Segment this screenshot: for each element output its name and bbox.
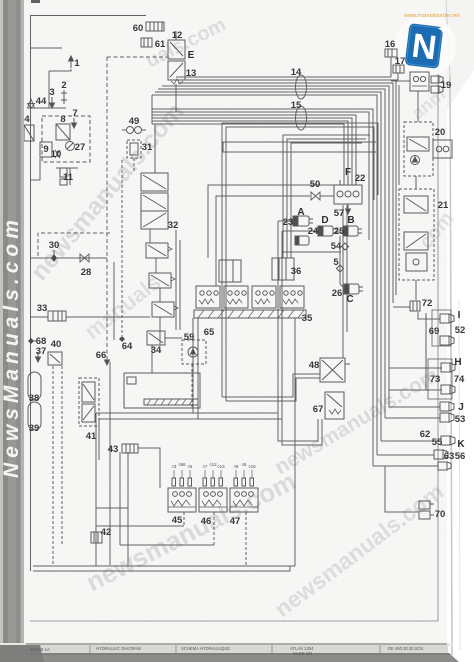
wire 5-26 drop bbox=[339, 236, 341, 284]
manifold top valve 1 bbox=[219, 260, 241, 282]
wire 70 feed bbox=[385, 466, 418, 512]
manifold valve B1 bbox=[196, 286, 220, 308]
bowtie 50 bbox=[311, 192, 320, 200]
block 41 bbox=[79, 378, 99, 426]
svg-text:8: 8 bbox=[60, 114, 65, 125]
bowtie 28 bbox=[80, 254, 89, 262]
svg-text:16: 16 bbox=[385, 39, 396, 50]
wire D-port bbox=[282, 230, 318, 232]
plug H2 bbox=[441, 385, 455, 394]
svg-text:60: 60 bbox=[133, 23, 144, 34]
arrow 3 bbox=[50, 97, 55, 108]
connector 60 hatched bbox=[146, 22, 164, 31]
manifold valve B2 bbox=[224, 286, 248, 308]
plug 58 bbox=[438, 462, 451, 470]
block 46 bbox=[199, 488, 227, 512]
page frame bottom bbox=[30, 620, 438, 622]
svg-text:38: 38 bbox=[29, 393, 40, 404]
wire 34 link bbox=[165, 337, 182, 339]
svg-text:J: J bbox=[458, 402, 464, 413]
svg-text:57: 57 bbox=[334, 208, 345, 219]
wire cascade link b bbox=[159, 288, 161, 302]
diamond 64 bbox=[119, 336, 125, 342]
unit 20 side block bbox=[433, 140, 452, 158]
svg-text:HYDRAULIC DIAGRAM: HYDRAULIC DIAGRAM bbox=[96, 646, 141, 651]
wire bundle left link bbox=[151, 95, 153, 124]
svg-text:37: 37 bbox=[36, 346, 47, 357]
svg-text:1: 1 bbox=[74, 58, 80, 69]
wire bundle l5 bbox=[152, 121, 348, 185]
wire 43 to blocks bbox=[138, 448, 160, 488]
wire 30 line bbox=[30, 257, 107, 259]
svg-text:4: 4 bbox=[24, 114, 30, 125]
wire K feed bbox=[381, 440, 441, 442]
valve 10 mark bbox=[55, 150, 60, 158]
svg-text:72: 72 bbox=[422, 298, 433, 309]
svg-text:25: 25 bbox=[334, 226, 345, 237]
svg-text:9: 9 bbox=[43, 144, 48, 155]
manifold bar hatched bbox=[194, 310, 306, 318]
svg-text:48: 48 bbox=[309, 360, 320, 371]
svg-text:SCHEMA HYDRAULIQUE: SCHEMA HYDRAULIQUE bbox=[181, 646, 230, 651]
plug H1 bbox=[441, 363, 455, 372]
port B barrel bbox=[343, 226, 362, 236]
loop coil 14 bbox=[296, 75, 307, 99]
arrow 37 bbox=[36, 352, 41, 362]
wire enclosure dashed left bbox=[106, 57, 108, 356]
gauge 27 bbox=[66, 142, 75, 151]
bottom strip bbox=[0, 643, 459, 662]
pump 59 dashed box bbox=[182, 340, 206, 364]
logo N blue square bbox=[405, 20, 451, 70]
wire manifold feed a bbox=[283, 135, 370, 258]
box H bbox=[428, 359, 452, 399]
wire top stub bbox=[30, 47, 62, 49]
svg-text:◊13: ◊13 bbox=[217, 464, 225, 469]
arrow 57 bbox=[346, 204, 351, 214]
wire 64 dashed bbox=[121, 160, 123, 336]
plug 53 bbox=[440, 413, 454, 422]
wire bus extra b bbox=[398, 85, 400, 185]
valve 40 bbox=[48, 352, 62, 365]
svg-text:31: 31 bbox=[142, 142, 153, 153]
wire bundle u4 bbox=[162, 86, 389, 407]
mini connectors above 46 bbox=[203, 470, 223, 486]
gauge block 22 bbox=[334, 178, 362, 204]
plug J bbox=[440, 402, 454, 411]
svg-text:E: E bbox=[188, 50, 195, 61]
wire manifold drop left a bbox=[192, 318, 194, 413]
block 45 bbox=[168, 488, 196, 512]
wire 48 risers bbox=[342, 205, 344, 358]
wire 46 drop bbox=[213, 512, 215, 545]
svg-text:49: 49 bbox=[129, 116, 140, 127]
wire manifold drop left b bbox=[197, 318, 199, 419]
svg-text:◊3: ◊3 bbox=[172, 464, 177, 469]
valve 48 bbox=[320, 358, 350, 382]
right page curl white edge bbox=[446, 0, 474, 662]
wire bowtie50 to valve22 bbox=[320, 195, 334, 197]
valve 18 bbox=[410, 72, 429, 91]
wire I feed bbox=[418, 312, 440, 319]
svg-text:56: 56 bbox=[455, 451, 466, 462]
svg-text:◊9: ◊9 bbox=[234, 464, 239, 469]
wire 43 riser bbox=[119, 452, 121, 545]
wire frame bottom pair b bbox=[226, 378, 320, 401]
wire bundle l6 bbox=[152, 124, 344, 185]
wire bus extra a bbox=[395, 80, 397, 295]
svg-text:46: 46 bbox=[201, 516, 212, 527]
wire top horizontal bbox=[30, 15, 146, 17]
wire cluster loop bbox=[49, 69, 71, 71]
svg-text:30: 30 bbox=[49, 240, 60, 251]
plug 52 bbox=[440, 336, 454, 345]
box I unit bbox=[432, 310, 451, 346]
connector 33 hatched bbox=[48, 311, 66, 321]
wire 34 drop bbox=[151, 345, 153, 373]
svg-text:5: 5 bbox=[333, 257, 339, 268]
svg-text:◊15: ◊15 bbox=[248, 464, 256, 469]
svg-text:47: 47 bbox=[230, 516, 241, 527]
svg-text:B: B bbox=[347, 215, 354, 226]
valve E 13 lower bbox=[168, 61, 185, 84]
wire 32 drop bbox=[149, 229, 151, 243]
svg-text:42: 42 bbox=[101, 527, 112, 538]
wire bottom mid bbox=[120, 544, 214, 546]
svg-text:59: 59 bbox=[184, 332, 195, 343]
svg-text:K: K bbox=[457, 439, 465, 450]
svg-text:66: 66 bbox=[96, 350, 107, 361]
valve 34 bbox=[147, 331, 165, 345]
wire 21 drop bbox=[415, 280, 417, 300]
port D barrel bbox=[318, 226, 337, 236]
corner mark bbox=[31, 0, 40, 3]
valve cascade c bbox=[152, 302, 178, 317]
svg-text:44: 44 bbox=[36, 96, 47, 107]
svg-text:17: 17 bbox=[395, 56, 406, 67]
svg-text:◊12: ◊12 bbox=[209, 462, 217, 467]
svg-text:62: 62 bbox=[420, 429, 431, 440]
svg-text:21: 21 bbox=[438, 200, 449, 211]
wire frame bottom pair a bbox=[222, 374, 320, 397]
wire 43 riser b bbox=[127, 452, 129, 566]
wire cluster loop drop bbox=[48, 71, 50, 108]
svg-text:69: 69 bbox=[429, 326, 440, 337]
wire cascade link a bbox=[155, 258, 157, 273]
valve 31 box bbox=[127, 140, 141, 158]
svg-text:N: N bbox=[410, 27, 439, 68]
valve 11 marks bbox=[60, 168, 70, 185]
svg-text:7: 7 bbox=[72, 108, 77, 119]
wire manifold long drop bbox=[294, 318, 296, 566]
svg-text:33: 33 bbox=[37, 303, 48, 314]
wire frame hairpin bbox=[223, 142, 376, 152]
loop coil 15 bbox=[296, 106, 307, 130]
plug I bbox=[440, 314, 454, 323]
svg-text:20: 20 bbox=[435, 127, 446, 138]
wire bundle u6 bbox=[155, 92, 381, 441]
svg-text:40: 40 bbox=[51, 339, 62, 350]
connector 61 hatched bbox=[141, 38, 152, 47]
wire 40 drops bbox=[52, 366, 54, 566]
port A2 barrel bbox=[295, 236, 309, 245]
wire bundle u5 bbox=[158, 89, 385, 418]
wire 72 feed bbox=[393, 306, 410, 308]
wire cascade bottom bbox=[159, 317, 161, 345]
wire B-port link bbox=[336, 231, 343, 233]
svg-text:73: 73 bbox=[430, 374, 441, 385]
svg-text:35: 35 bbox=[302, 313, 313, 324]
svg-text:65: 65 bbox=[204, 327, 215, 338]
svg-text:◊6: ◊6 bbox=[188, 464, 193, 469]
manifold top valve 2 bbox=[272, 258, 294, 280]
svg-text:43: 43 bbox=[108, 444, 119, 455]
wire A-port bbox=[278, 220, 293, 222]
manifold valve B3 bbox=[252, 286, 276, 308]
wire inner rect b bbox=[99, 419, 322, 445]
wire 20 to 21 link bbox=[415, 176, 417, 189]
wire bundle l3 bbox=[152, 115, 356, 185]
svg-text:H: H bbox=[454, 357, 461, 368]
wire 11 bar bbox=[56, 167, 78, 169]
wire A vertical bbox=[277, 221, 279, 413]
plug 70 bbox=[419, 501, 434, 519]
regulator cluster dashed box bbox=[42, 116, 90, 162]
valve 2 mark bbox=[61, 90, 67, 104]
svg-text:F: F bbox=[345, 167, 351, 178]
block 47 bbox=[230, 488, 258, 512]
wire bundle u1 bbox=[176, 76, 391, 78]
wire frame N1 bbox=[222, 123, 378, 397]
wire J feed bbox=[389, 406, 440, 408]
svg-text:32: 32 bbox=[168, 220, 179, 231]
wire 59 drop bbox=[191, 364, 193, 408]
valve cascade b bbox=[149, 273, 175, 288]
svg-text:36: 36 bbox=[291, 266, 302, 277]
arrow 66 bbox=[105, 356, 110, 365]
wire bundle l1 bbox=[152, 109, 373, 466]
wire bundle l2 bbox=[152, 112, 369, 240]
port C barrel bbox=[344, 284, 363, 294]
wire 54 branch bbox=[282, 251, 341, 253]
svg-text:22: 22 bbox=[355, 173, 366, 184]
valve 4 box bbox=[24, 125, 34, 141]
wire 16 drop bbox=[390, 57, 392, 77]
svg-text:26: 26 bbox=[332, 288, 343, 299]
pump 49 bbox=[122, 127, 146, 134]
svg-text:53: 53 bbox=[455, 414, 466, 425]
svg-text:DE 460.30.30.0CN: DE 460.30.30.0CN bbox=[388, 646, 423, 651]
valve 9 box bbox=[40, 142, 52, 157]
valve 8 box bbox=[56, 124, 70, 140]
connector 42 bbox=[91, 532, 102, 543]
svg-text:I: I bbox=[458, 310, 461, 321]
accumulator 39 bbox=[28, 402, 41, 430]
svg-text:◊56: ◊56 bbox=[178, 462, 186, 467]
svg-text:63: 63 bbox=[444, 451, 455, 462]
svg-text:41: 41 bbox=[86, 431, 97, 442]
mini connectors above 45 bbox=[172, 470, 192, 486]
wire 41 pair left drop bbox=[98, 419, 100, 460]
wire bundle u7 bbox=[152, 95, 377, 455]
svg-text:13: 13 bbox=[186, 68, 197, 79]
svg-text:D: D bbox=[321, 215, 328, 226]
wire 9 box link bbox=[30, 158, 40, 180]
left margin strip bbox=[0, 0, 24, 655]
wire 48 riser b bbox=[346, 205, 348, 332]
accumulator 38 bbox=[28, 372, 41, 400]
wire cascade side pair b bbox=[179, 240, 181, 330]
wire 31 drop bbox=[133, 158, 135, 173]
wire 37 line bbox=[30, 340, 36, 342]
svg-text:34: 34 bbox=[151, 345, 162, 356]
svg-text:52: 52 bbox=[455, 325, 466, 336]
wire 53 feed bbox=[385, 417, 440, 419]
svg-text:www.manualsorder.net: www.manualsorder.net bbox=[403, 13, 460, 19]
wire valve E drop bbox=[175, 84, 177, 112]
bowtie 44 bbox=[28, 99, 35, 108]
page frame right bbox=[437, 68, 439, 621]
wire mid h185 bbox=[208, 185, 334, 258]
svg-text:45: 45 bbox=[172, 515, 183, 526]
svg-text:74: 74 bbox=[454, 374, 465, 385]
svg-text:61: 61 bbox=[155, 39, 166, 50]
wire bundle l4 bbox=[152, 118, 352, 185]
plug K bbox=[441, 436, 455, 445]
wire bottom long a bbox=[33, 565, 295, 567]
wire C feed bbox=[340, 284, 344, 288]
wire 45 drop bbox=[183, 512, 185, 526]
wire dashed enclosure L bbox=[38, 233, 110, 256]
svg-text:3: 3 bbox=[49, 87, 54, 98]
wire inner rect a bbox=[96, 413, 318, 441]
arrow 7 bbox=[72, 118, 77, 128]
svg-text:27: 27 bbox=[75, 142, 86, 153]
valve cascade a bbox=[146, 243, 172, 258]
port A barrel bbox=[293, 216, 313, 226]
wire 19 feed bbox=[391, 80, 410, 82]
diamond 30 bbox=[51, 250, 57, 262]
wire 17 drop bbox=[397, 73, 399, 80]
wire bottom long b bbox=[33, 566, 290, 571]
svg-text:24: 24 bbox=[308, 226, 319, 237]
wire manifold feed b bbox=[287, 139, 366, 258]
wire 63 feed bbox=[377, 454, 434, 456]
valve 5 diamond bbox=[337, 265, 344, 272]
svg-text:39: 39 bbox=[29, 423, 40, 434]
wire bundle u2 bbox=[176, 79, 398, 81]
plug 19b bbox=[431, 86, 443, 93]
valve 32 stack bbox=[141, 173, 168, 229]
wire 41 loop bbox=[96, 507, 128, 509]
wire bundle u3 bbox=[178, 83, 393, 303]
valve 67 bbox=[325, 392, 344, 419]
plug 19a bbox=[431, 76, 443, 83]
unit 21 dashed box bbox=[399, 189, 434, 280]
svg-text:54: 54 bbox=[331, 241, 342, 252]
svg-text:28: 28 bbox=[81, 267, 92, 278]
svg-text:23: 23 bbox=[283, 217, 294, 228]
svg-text:67: 67 bbox=[313, 404, 324, 415]
svg-text:SAGE 1/N: SAGE 1/N bbox=[293, 651, 312, 656]
wire enclosure dashed top bbox=[107, 56, 167, 58]
svg-text:15: 15 bbox=[291, 100, 302, 111]
plug 63 bbox=[434, 450, 448, 459]
svg-text:12: 12 bbox=[172, 30, 183, 41]
svg-text:70: 70 bbox=[435, 509, 446, 520]
arrow node 1 bbox=[69, 56, 74, 68]
wire 42 drop bbox=[95, 413, 97, 566]
svg-text:50: 50 bbox=[310, 179, 321, 190]
svg-text:55: 55 bbox=[432, 437, 443, 448]
wire 33 line bbox=[30, 316, 48, 318]
wire bottom right feed bbox=[373, 465, 438, 467]
wire mid-left pair bbox=[113, 262, 115, 340]
svg-text:307A-8 1A: 307A-8 1A bbox=[30, 647, 50, 652]
svg-text:A: A bbox=[297, 207, 304, 218]
logo halo bbox=[394, 15, 456, 77]
wire cluster bar bbox=[29, 107, 66, 109]
mini connectors above 47 bbox=[234, 470, 254, 486]
wire bottom short bbox=[96, 525, 184, 527]
unit 20 dashed box bbox=[404, 122, 433, 176]
wire frame N2 bbox=[226, 127, 374, 401]
connector 17 hatched bbox=[393, 65, 404, 73]
svg-text:◊7: ◊7 bbox=[203, 464, 208, 469]
connector 43 hatched bbox=[122, 444, 138, 453]
tank box 41 bbox=[124, 373, 200, 408]
wire H feed top bbox=[389, 367, 442, 369]
valve E 12 upper bbox=[168, 31, 185, 59]
wire left main vertical bbox=[30, 16, 32, 572]
svg-text:19: 19 bbox=[441, 80, 452, 91]
svg-text:◊8: ◊8 bbox=[242, 462, 247, 467]
wire H feed bottom bbox=[389, 389, 442, 391]
plug 72 bbox=[410, 301, 420, 311]
wire 40 drop b bbox=[61, 366, 63, 545]
wire mid h196 to gauge bbox=[216, 196, 310, 286]
wire 66 drop solid bbox=[109, 362, 111, 565]
svg-text:NewsManuals.com: NewsManuals.com bbox=[0, 215, 23, 478]
wire D vertical bbox=[281, 231, 283, 419]
manifold valve B4 bbox=[280, 286, 304, 308]
wire manifold feed c bbox=[291, 143, 362, 258]
svg-text:11: 11 bbox=[63, 172, 74, 183]
svg-text:14: 14 bbox=[291, 67, 302, 78]
connector 16 hatched bbox=[385, 49, 397, 57]
svg-text:64: 64 bbox=[122, 341, 133, 352]
wire 20 feed bbox=[417, 91, 419, 122]
svg-text:C: C bbox=[346, 294, 353, 305]
wire 33 cont bbox=[66, 316, 150, 318]
svg-text:2: 2 bbox=[61, 80, 66, 91]
wire cascade side pair bbox=[175, 230, 177, 330]
svg-text:10: 10 bbox=[51, 149, 62, 160]
wire 32 feed bbox=[154, 124, 156, 173]
wire 47 drop bbox=[245, 512, 247, 566]
diamond 68 bbox=[28, 338, 34, 344]
diamond 54 bbox=[342, 243, 349, 250]
